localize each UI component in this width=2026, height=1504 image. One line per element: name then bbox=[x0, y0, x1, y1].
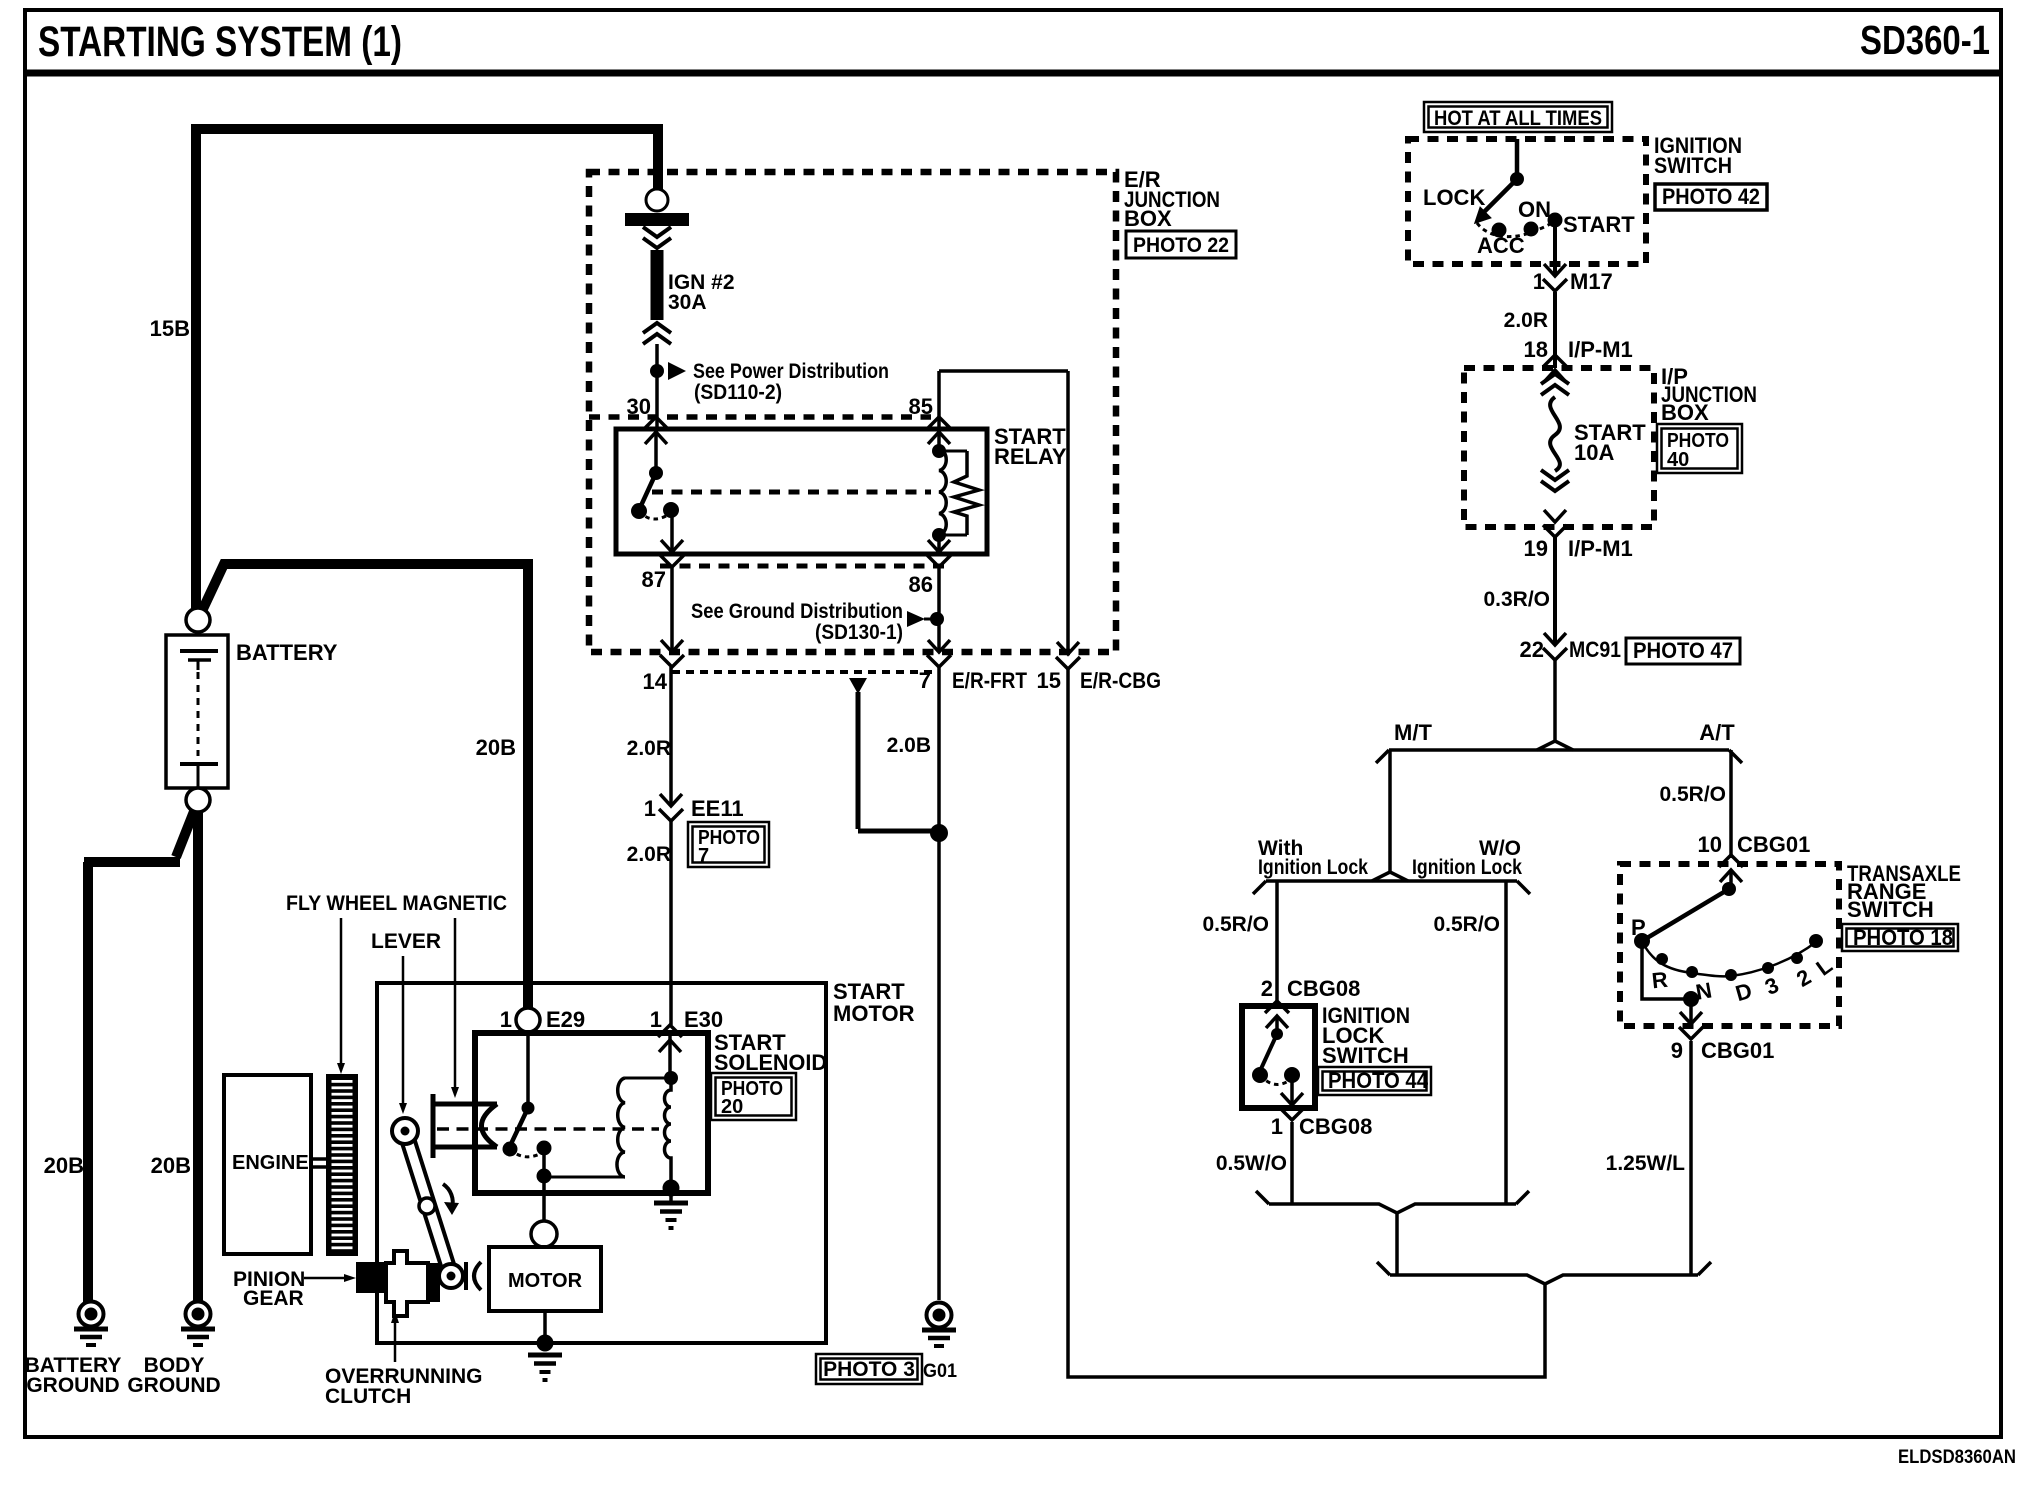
svg-text:PHOTO 3: PHOTO 3 bbox=[823, 1358, 915, 1381]
svg-text:20B: 20B bbox=[476, 735, 516, 760]
svg-text:GEAR: GEAR bbox=[243, 1287, 304, 1310]
svg-text:CBG01: CBG01 bbox=[1701, 1038, 1774, 1063]
svg-text:10: 10 bbox=[1698, 832, 1722, 857]
svg-text:LEVER: LEVER bbox=[371, 930, 441, 953]
svg-text:CBG08: CBG08 bbox=[1287, 976, 1360, 1001]
svg-text:7: 7 bbox=[698, 845, 709, 867]
svg-text:CBG08: CBG08 bbox=[1299, 1114, 1372, 1139]
svg-text:ENGINE: ENGINE bbox=[232, 1152, 309, 1174]
svg-text:1: 1 bbox=[1533, 269, 1545, 294]
svg-text:MC91: MC91 bbox=[1569, 637, 1621, 662]
svg-text:I/P-M1: I/P-M1 bbox=[1568, 536, 1633, 561]
svg-text:10A: 10A bbox=[1574, 440, 1614, 465]
svg-text:GROUND: GROUND bbox=[26, 1374, 119, 1397]
svg-text:PHOTO 18: PHOTO 18 bbox=[1853, 925, 1953, 950]
svg-text:M17: M17 bbox=[1570, 269, 1613, 294]
svg-text:ON: ON bbox=[1518, 197, 1551, 222]
svg-text:MOTOR: MOTOR bbox=[508, 1270, 583, 1292]
svg-text:HOT AT ALL TIMES: HOT AT ALL TIMES bbox=[1434, 107, 1602, 130]
svg-text:BATTERY: BATTERY bbox=[236, 640, 338, 665]
svg-text:86: 86 bbox=[909, 572, 933, 597]
svg-text:Ignition Lock: Ignition Lock bbox=[1258, 856, 1368, 879]
svg-text:A/T: A/T bbox=[1699, 720, 1735, 745]
svg-text:0.5R/O: 0.5R/O bbox=[1202, 913, 1269, 936]
svg-text:CBG01: CBG01 bbox=[1737, 832, 1810, 857]
svg-text:START: START bbox=[1563, 212, 1635, 237]
svg-text:87: 87 bbox=[642, 567, 666, 592]
svg-text:1.25W/L: 1.25W/L bbox=[1606, 1152, 1686, 1175]
svg-text:E29: E29 bbox=[546, 1007, 585, 1032]
svg-text:SWITCH: SWITCH bbox=[1847, 897, 1934, 922]
svg-text:Ignition Lock: Ignition Lock bbox=[1412, 856, 1522, 879]
svg-text:EE11: EE11 bbox=[691, 796, 744, 821]
svg-text:14: 14 bbox=[643, 669, 668, 694]
svg-text:ACC: ACC bbox=[1477, 233, 1525, 258]
svg-text:I/P-M1: I/P-M1 bbox=[1568, 337, 1633, 362]
svg-text:SD360-1: SD360-1 bbox=[1860, 17, 1990, 63]
svg-text:18: 18 bbox=[1524, 337, 1548, 362]
svg-text:E30: E30 bbox=[684, 1007, 723, 1032]
svg-text:15: 15 bbox=[1037, 668, 1061, 693]
svg-text:E/R-FRT: E/R-FRT bbox=[952, 668, 1027, 693]
svg-text:1: 1 bbox=[1271, 1114, 1283, 1139]
svg-text:(SD130-1): (SD130-1) bbox=[815, 621, 903, 644]
svg-text:See Ground Distribution: See Ground Distribution bbox=[691, 600, 903, 623]
svg-text:See Power Distribution: See Power Distribution bbox=[693, 360, 889, 383]
svg-text:R: R bbox=[1651, 967, 1670, 994]
svg-text:7: 7 bbox=[919, 668, 931, 693]
svg-text:E/R-CBG: E/R-CBG bbox=[1080, 668, 1161, 693]
svg-text:LOCK: LOCK bbox=[1423, 185, 1485, 210]
svg-text:19: 19 bbox=[1524, 536, 1548, 561]
svg-text:BOX: BOX bbox=[1661, 400, 1709, 425]
svg-text:40: 40 bbox=[1667, 449, 1689, 471]
svg-text:PHOTO 47: PHOTO 47 bbox=[1633, 638, 1733, 663]
svg-text:20B: 20B bbox=[44, 1153, 84, 1178]
svg-text:SWITCH: SWITCH bbox=[1654, 153, 1732, 178]
svg-text:STARTING SYSTEM (1): STARTING SYSTEM (1) bbox=[38, 18, 402, 66]
svg-text:SWITCH: SWITCH bbox=[1322, 1043, 1409, 1068]
svg-text:9: 9 bbox=[1671, 1038, 1683, 1063]
svg-text:2.0R: 2.0R bbox=[1504, 309, 1548, 332]
svg-text:22: 22 bbox=[1520, 637, 1544, 662]
svg-text:PHOTO 22: PHOTO 22 bbox=[1133, 234, 1229, 257]
svg-text:2.0R: 2.0R bbox=[627, 737, 671, 760]
svg-text:30A: 30A bbox=[668, 291, 707, 314]
svg-text:0.3R/O: 0.3R/O bbox=[1483, 588, 1550, 611]
svg-text:P: P bbox=[1631, 915, 1646, 940]
svg-text:MOTOR: MOTOR bbox=[833, 1001, 915, 1026]
svg-text:85: 85 bbox=[909, 394, 933, 419]
svg-text:0.5R/O: 0.5R/O bbox=[1433, 913, 1500, 936]
svg-text:0.5R/O: 0.5R/O bbox=[1659, 783, 1726, 806]
svg-text:CLUTCH: CLUTCH bbox=[325, 1385, 411, 1408]
svg-text:GROUND: GROUND bbox=[127, 1374, 220, 1397]
svg-text:PHOTO 44: PHOTO 44 bbox=[1328, 1068, 1429, 1093]
svg-text:1: 1 bbox=[644, 796, 656, 821]
svg-text:1: 1 bbox=[650, 1007, 662, 1032]
svg-text:M/T: M/T bbox=[1394, 720, 1432, 745]
svg-text:ELDSD8360AN: ELDSD8360AN bbox=[1898, 1447, 2016, 1468]
svg-text:2.0R: 2.0R bbox=[627, 843, 671, 866]
svg-text:1: 1 bbox=[500, 1007, 512, 1032]
svg-text:15B: 15B bbox=[150, 316, 190, 341]
svg-text:20B: 20B bbox=[151, 1153, 191, 1178]
svg-text:20: 20 bbox=[721, 1096, 743, 1118]
svg-text:G01: G01 bbox=[923, 1361, 957, 1382]
svg-text:FLY WHEEL MAGNETIC: FLY WHEEL MAGNETIC bbox=[286, 892, 507, 915]
svg-text:0.5W/O: 0.5W/O bbox=[1216, 1152, 1287, 1175]
svg-text:2.0B: 2.0B bbox=[887, 734, 931, 757]
svg-text:PHOTO 42: PHOTO 42 bbox=[1662, 184, 1760, 209]
svg-text:(SD110-2): (SD110-2) bbox=[694, 381, 782, 404]
svg-text:SOLENOID: SOLENOID bbox=[714, 1050, 827, 1075]
svg-text:2: 2 bbox=[1261, 976, 1273, 1001]
svg-text:RELAY: RELAY bbox=[994, 444, 1067, 469]
svg-text:BOX: BOX bbox=[1124, 206, 1172, 231]
